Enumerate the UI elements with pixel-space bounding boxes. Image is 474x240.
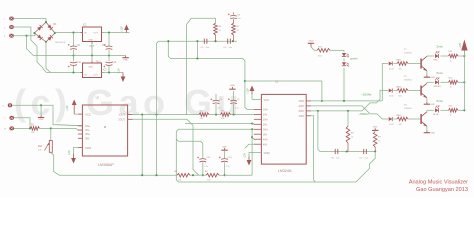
resistor R10 [205,170,219,181]
capacitor C6 [331,149,340,160]
transistor T2 [421,83,427,98]
wire C1 up [215,93,217,95]
connector pin J1 [4,17,14,21]
label -12V (U1) [244,153,247,158]
label LM324N [278,169,292,173]
label ~800Hz [359,112,370,116]
led clamp 1 [342,53,349,57]
capacitor C4 [224,39,233,50]
svg-text:1k: 1k [450,87,452,89]
wire R1 to U2 inv [40,127,83,130]
resistor R11 [397,59,408,70]
wire D2 to R [394,90,398,92]
svg-text:GND: GND [431,77,436,79]
capacitor C9 [68,44,81,49]
supply +12V arrow (U1) [250,86,255,95]
wire top cap chain [159,40,237,42]
label DB106 value [55,42,66,44]
svg-text:2IN+: 2IN+ [263,119,269,121]
svg-text:1IN+: 1IN+ [85,125,91,128]
label U1 [275,81,279,84]
svg-text:GND: GND [85,146,91,150]
label 7812 [89,46,95,48]
wire U2 gnd to -12V [74,148,78,154]
wire base T1 [408,63,421,65]
mid ground rail [33,54,125,56]
resistor R12 [397,86,408,97]
potentiometer E$1 [45,140,53,152]
label +12V (U2) [66,105,69,111]
wire pad B join [14,118,30,129]
label +12V (U1) [247,88,250,94]
label E$1 [38,146,43,148]
label -12V (U2) [68,150,71,155]
wire lower caps chain [330,150,376,152]
svg-text:-12V: -12V [68,150,71,155]
svg-text:RED: RED [433,60,438,62]
svg-text:2IN+: 2IN+ [85,133,91,136]
wire U1 in jogs [245,144,254,148]
wire R17 to led [330,50,344,52]
supply +12V arrow (psu) [124,25,129,33]
label R17 [318,46,323,57]
ground symbol input [38,115,44,121]
wire bridge to IC1 IN (+ rail) [55,32,83,34]
label +12V (psu) [121,26,124,32]
svg-text:OUT: OUT [93,74,98,76]
resistor R4 [199,111,209,120]
resistor R5 [220,111,230,120]
watermark text [14,82,243,123]
LED BLUE [433,105,439,116]
resistor R14 [449,51,459,62]
label R7 [237,26,241,32]
label +12V (rail) [459,42,462,48]
wire led rail [463,49,465,110]
svg-text:2OUT: 2OUT [118,118,125,121]
capacitor C2 [228,98,240,109]
svg-text:2N3904: 2N3904 [404,79,412,81]
svg-text:2IN-: 2IN- [85,137,90,140]
svg-text:GND: GND [89,39,94,41]
svg-text:GND: GND [222,146,227,148]
label 7912 [96,61,102,63]
led clamp 2 [342,62,349,66]
wire cap C12 leads [108,56,110,73]
svg-text:-12V: -12V [244,153,247,158]
wire IC1 gnd to mid rail [91,44,93,56]
svg-text:2IN-: 2IN- [263,124,268,126]
wire led to R16 [440,109,448,111]
wire pad A gnd stub [40,105,42,115]
wire R15 to rail [458,81,465,83]
resistor R8 [346,126,350,152]
svg-text:VCC: VCC [264,98,270,102]
label green [350,56,358,60]
svg-text:+12V: +12V [459,42,462,48]
wire J3 to bridge left corner [14,33,36,55]
svg-text:3IN-: 3IN- [263,134,268,136]
connector pad B [4,116,14,120]
supply -12V arrow (psu) [121,73,126,83]
wire IC2 gnd to mid rail [91,56,93,62]
label 5mm [437,99,444,103]
capacitor C10 [102,44,113,49]
op-amp U2 [78,105,133,156]
wire cap C10 leads [108,33,110,56]
label R11v [378,136,382,142]
label 5mm [437,71,444,75]
transistor T1 [421,56,427,71]
svg-text:U2: U2 [96,95,100,99]
title line 2 [416,187,468,193]
svg-text:GND: GND [123,59,128,61]
resistor R1 [30,127,40,131]
connector pad C [4,127,14,131]
resistor R11v [373,132,377,152]
svg-text:C10: C10 [102,45,107,47]
wire R1 to pot [50,128,52,140]
label -12V (psu) [118,68,121,73]
diode D1 [389,59,400,70]
wire over U1 to out1 [245,81,323,102]
ground emitter T1 [424,75,436,79]
wire long mid 2 [176,128,254,182]
wire pad C to R1 [14,127,31,129]
wire emitter T2 [426,98,428,102]
ground emitter T2 [424,102,436,106]
svg-text:E$1: E$1 [38,146,43,148]
svg-text:1k: 1k [450,115,452,117]
svg-text:1OUT: 1OUT [298,101,305,103]
wire pot to lower chain [51,152,177,175]
ground symbol clamp [308,40,314,47]
wire emitter T3 [426,126,428,130]
wire C2 leads [233,91,235,115]
wire R4-R5 [209,114,220,116]
wire gnd to R17 [311,47,317,50]
svg-text:5mm: 5mm [437,99,444,103]
ground symbol psu [122,56,128,62]
svg-text:GND: GND [230,85,235,87]
wire bottom long [178,152,375,183]
wire R9-R10 [190,174,206,176]
capacitor C1 [210,98,222,109]
svg-text:3OUT: 3OUT [298,111,305,113]
diode D3 [389,115,400,126]
wire IC1 out to +12V arrow [102,32,130,34]
svg-text:BLUE: BLUE [433,114,439,116]
bridge rectifier B1 [33,21,56,43]
wire J2 to bottom rail [14,27,47,73]
title line 1 [409,180,468,186]
label LM358AP [98,163,114,167]
svg-text:VCC: VCC [85,113,91,117]
wire R8 top [347,111,349,126]
svg-text:Gao Guangyan 2013: Gao Guangyan 2013 [416,187,468,193]
svg-text:4IN-: 4IN- [263,144,268,146]
wire bridge to IC2 (- rail) [46,42,83,74]
wire led to R14 [440,55,448,57]
wire long mid 1 [185,122,254,124]
label U2 [96,95,100,99]
svg-text:OUT: OUT [93,33,98,35]
svg-text:green: green [350,56,358,60]
svg-text:+12V: +12V [121,26,124,32]
wire emitter T1 [426,71,428,75]
svg-text:2OUT: 2OUT [298,106,305,108]
wire C14 top [224,150,226,158]
label E$1 value [38,150,42,152]
resistor R17 [317,49,330,53]
label R6 [219,26,223,32]
svg-text:1IN-: 1IN- [85,129,90,132]
svg-text:4OUT: 4OUT [298,116,305,118]
wire R10 east [219,174,252,176]
svg-text:(c) Gao Gu: (c) Gao Gu [14,82,243,123]
wire drop x197 [196,41,198,59]
svg-text:1IN-: 1IN- [263,115,268,117]
label R8 [351,132,355,138]
resistor R7 [232,19,236,41]
wire base T3 [408,118,421,120]
ground emitter T3 [424,131,436,135]
supply -12V arrow (U2) [71,154,76,164]
capacitor C8 [228,12,242,20]
wire out1 east [311,100,382,102]
svg-text:LM358AP: LM358AP [98,163,114,167]
label T1 [404,49,412,54]
wire R5 to U1 [231,114,254,116]
svg-text:1OUT: 1OUT [118,114,125,117]
svg-text:1IN+: 1IN+ [263,110,269,112]
regulator IC1 [81,27,104,44]
svg-text:+12V: +12V [66,105,69,111]
capacitor C11 [68,62,82,67]
label R1 value [31,132,35,134]
op-amp U1 LM324 [254,94,311,164]
wire D1 to R [394,63,398,65]
wire C13 bottom [202,162,204,176]
svg-text:5mm: 5mm [437,71,444,75]
label R1 [31,124,35,126]
svg-text:+12V: +12V [247,88,250,94]
connector pin J3 [4,34,14,38]
label IC2 [103,70,107,72]
wire lower caps east bend [0,0,1,1]
wire cap C11 leads [73,56,75,73]
wire collector T1 [427,55,434,57]
svg-text:~800Hz: ~800Hz [359,112,370,116]
svg-text:DB106/DIL: DB106/DIL [55,42,66,44]
svg-text:2N3904: 2N3904 [404,108,412,110]
wire led to R15 [440,81,448,83]
svg-text:4IN+: 4IN+ [263,139,269,141]
svg-text:GND: GND [39,119,44,121]
regulator IC2 [81,61,104,78]
wire U2 vcc arrow [74,113,78,115]
wire led2 down [343,68,345,102]
wire U1 vcc [252,94,261,99]
wire cap C9 leads [73,33,75,56]
capacitor C7 [360,149,369,160]
ground symbol R11 [372,126,378,130]
wire loop x156 [155,41,158,176]
wire C14 bottom [223,162,225,176]
wire pad A to U2 noninv [12,104,82,126]
svg-text:2N3904: 2N3904 [404,52,412,54]
LED GREEN [433,77,441,88]
capacitor C3 [201,39,210,50]
wire top loop x187 [187,18,216,114]
wire lower net top [176,139,203,158]
wire out1 riser to ch1 [382,64,388,101]
label B1 [54,23,58,26]
svg-text:~100Hz: ~100Hz [361,92,372,96]
transistor T3 [421,112,427,127]
svg-text:3IN+: 3IN+ [263,129,269,131]
wire U1 gnd [249,153,261,157]
wire drop x142 [141,115,143,177]
svg-text:GND: GND [373,126,378,128]
wire U2 2OUT bend down [133,119,199,175]
wire x318 drop to lower caps [318,111,330,152]
wire IC2 out to -12V arrow [102,71,124,73]
wire collector T3 [427,110,434,112]
svg-text:1k: 1k [450,60,452,62]
connector pad A [3,103,13,107]
svg-text:GREEN: GREEN [433,86,441,88]
wire chain to U1 pin1 [167,40,254,109]
svg-text:Analog Music Visualizer: Analog Music Visualizer [409,180,468,186]
wire D3 to R [394,118,398,120]
wire out3 cross to ch2 [311,91,388,112]
svg-text:2mm: 2mm [437,45,444,49]
resistor R15 [449,77,459,88]
ground symbol mid caps [229,85,235,89]
wire out2 cross to ch3 [311,106,388,119]
wire C1 leads [215,94,217,115]
label IC1 [83,25,87,27]
svg-text:GND: GND [89,67,94,69]
label ~100Hz [361,92,372,96]
wire J1 to bridge top [14,19,47,23]
resistor R9 [175,170,191,181]
wire R16 to rail [458,109,465,111]
svg-text:GND: GND [431,104,436,106]
supply -12V arrow (U1) [247,157,252,166]
wire R14 to rail [458,55,465,57]
svg-text:GND: GND [431,133,436,135]
supply +12V arrow (rail) [461,40,467,57]
label 2mm [437,45,444,49]
svg-text:-12V: -12V [118,68,121,73]
svg-text:LM324N: LM324N [278,169,292,173]
wire base T2 [408,90,421,92]
svg-text:C11: C11 [77,62,82,64]
LED RED [433,51,439,62]
resistor R6 [214,23,218,41]
svg-text:GND: GND [264,151,270,155]
capacitor C13 [197,157,210,168]
label T3 [404,105,412,110]
wire collector T2 [427,82,434,83]
svg-text:C12: C12 [112,62,117,64]
wire led1-led2 [343,58,345,61]
diode D2 [389,86,400,97]
capacitor C12 [103,62,116,67]
wire U2 1OUT east [133,114,199,116]
connector pin J2 [4,25,14,29]
wire out4 drop [311,116,315,182]
svg-text:GND: GND [309,40,314,42]
supply +12V arrow (U2) [72,100,77,115]
resistor R13 [397,115,408,126]
ground symbol C14 [221,146,227,150]
label T2 [404,76,412,81]
capacitor C14 [219,157,232,168]
wire lower feedback riser [251,129,254,175]
resistor R16 [449,105,459,116]
